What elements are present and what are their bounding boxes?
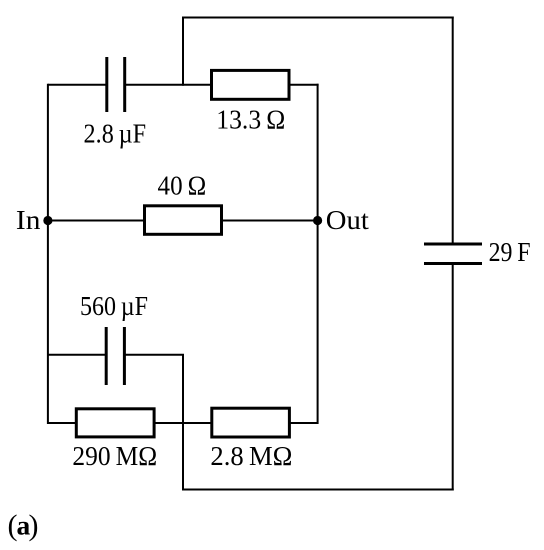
svg-text:2.8 µF: 2.8 µF (84, 117, 147, 148)
capacitor C2 560 uF left plate (105, 327, 108, 385)
wire bottom row: left rail to resistor R3 (48, 422, 76, 424)
wire bottom-left riser at x=183 from 560uF branch down to bottom wire (182, 355, 184, 491)
capacitor C3 29 F bottom plate (424, 262, 482, 265)
svg-text:In: In (16, 204, 41, 235)
resistor R2 40 Ohm body (145, 206, 222, 235)
svg-text:Out: Out (326, 204, 369, 235)
svg-text:): ) (29, 509, 39, 542)
wire 560uF branch: left rail to capacitor C2 left plate (48, 354, 106, 356)
wire between resistor R3 and resistor R4 (154, 422, 212, 424)
wire right rail upper segment down to capacitor C3 top plate (452, 17, 454, 245)
wire from resistor R2 to Out node (222, 220, 318, 222)
resistor R4 2.8 MOhm body (212, 408, 290, 437)
wire top branch: left rail to capacitor C1 left plate (48, 84, 107, 86)
wire top horizontal from junction to right rail (182, 17, 454, 19)
capacitor C3 29 F top plate (424, 243, 482, 246)
node In junction dot (43, 216, 52, 225)
wire Out rail vertical (317, 84, 319, 424)
wire middle branch: In node to resistor R2 (48, 220, 145, 222)
node Out junction dot (313, 216, 322, 225)
resistor R3 290 MOhm body (76, 409, 154, 437)
wire left rail (In rail) (47, 84, 49, 424)
wire from resistor R1 to Out rail (289, 84, 319, 86)
wire bottom horizontal (182, 489, 454, 491)
svg-text:560 µF: 560 µF (80, 290, 148, 321)
capacitor C1 2.8 uF left plate (105, 57, 108, 112)
wire from C2 right plate to riser (124, 354, 184, 356)
resistor R1 13.3 Ohm body (212, 70, 290, 99)
wire from resistor R4 to Out rail (289, 422, 317, 424)
capacitor C1 2.8 uF right plate (123, 57, 126, 112)
wire right rail lower segment from capacitor C3 bottom plate (452, 264, 454, 491)
capacitor C2 560 uF right plate (123, 327, 126, 385)
svg-text:29 F: 29 F (489, 236, 531, 267)
wire from C1 right plate to resistor R1 (125, 84, 212, 86)
svg-text:2.8 MΩ: 2.8 MΩ (210, 440, 292, 471)
svg-text:13.3 Ω: 13.3 Ω (216, 103, 285, 134)
svg-text:290 MΩ: 290 MΩ (72, 440, 157, 471)
wire junction vertical at x=183 up to top wire (182, 17, 184, 86)
svg-text:40 Ω: 40 Ω (158, 170, 207, 201)
